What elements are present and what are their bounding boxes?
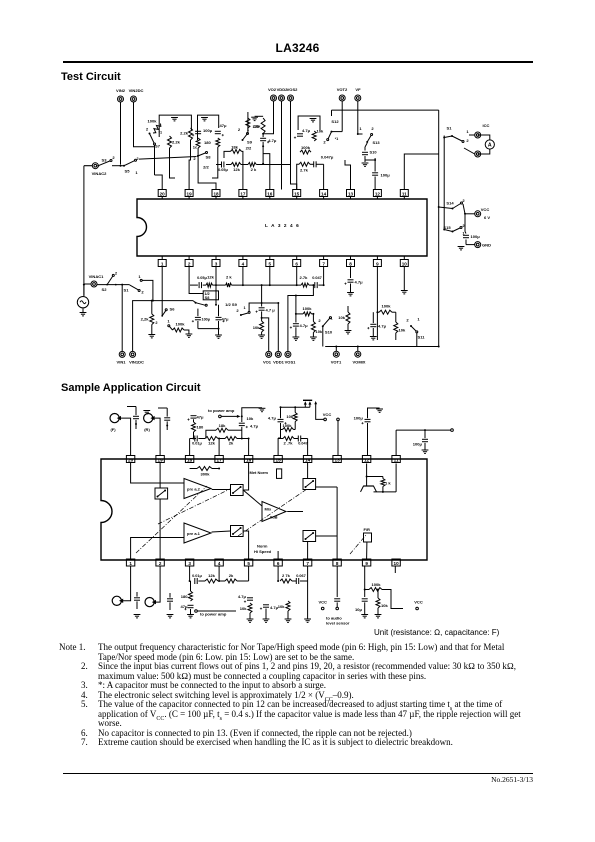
svg-text:pre a.2: pre a.2 bbox=[187, 487, 201, 492]
capacitor 47u bbox=[215, 123, 227, 136]
svg-text:1/2 S9: 1/2 S9 bbox=[225, 302, 237, 307]
resistor 180 bbox=[196, 138, 211, 148]
ground supply bbox=[458, 247, 465, 250]
wire pin13 up bbox=[345, 160, 351, 190]
wire pin16 up bbox=[248, 439, 250, 456]
terminal GND bbox=[466, 240, 491, 248]
capacitor 4.7u below junction bbox=[239, 416, 259, 438]
svg-text:A: A bbox=[488, 143, 492, 149]
pin 15 app (top) bbox=[274, 456, 282, 463]
capacitor 100u top bbox=[354, 408, 380, 456]
svg-text:4.7μ: 4.7μ bbox=[300, 323, 309, 328]
svg-text:S5: S5 bbox=[125, 169, 131, 174]
resistor 10k pin8b bbox=[338, 306, 351, 334]
internal wire pin19 to block A bbox=[159, 463, 161, 489]
switch block B bbox=[231, 485, 244, 496]
resistor 100k (input bias) bbox=[147, 119, 162, 135]
wire pin18 up bbox=[189, 439, 191, 456]
svg-text:5: 5 bbox=[269, 261, 272, 266]
svg-text:16: 16 bbox=[267, 191, 273, 196]
terminal VOS2 bbox=[287, 87, 299, 101]
switch S3 bbox=[97, 155, 115, 167]
svg-text:6 V: 6 V bbox=[484, 215, 490, 220]
svg-text:12k: 12k bbox=[207, 275, 215, 280]
internal wire pin5 to block C bbox=[243, 531, 249, 559]
svg-text:2: 2 bbox=[318, 318, 321, 323]
svg-text:2: 2 bbox=[141, 290, 144, 295]
svg-text:7: 7 bbox=[322, 261, 325, 266]
wire junction up to ground bbox=[242, 408, 266, 417]
svg-text:VOMIX: VOMIX bbox=[352, 360, 365, 365]
svg-text:3: 3 bbox=[215, 261, 218, 266]
pin 10 (bottom) bbox=[400, 256, 408, 267]
switch block C bbox=[231, 526, 244, 537]
capacitor 100u supply bbox=[463, 214, 480, 239]
wires mid cluster bbox=[297, 164, 299, 189]
svg-text:4.7μ: 4.7μ bbox=[378, 324, 387, 329]
wire cluster to pin 18 bbox=[198, 148, 216, 190]
svg-text:100μ: 100μ bbox=[413, 442, 423, 447]
svg-text:10k: 10k bbox=[399, 328, 407, 333]
switch S11 bbox=[406, 317, 425, 340]
svg-text:7: 7 bbox=[306, 561, 309, 566]
wire S7 down to pin 20 bbox=[154, 145, 156, 175]
svg-text:4.7μ: 4.7μ bbox=[250, 424, 259, 429]
svg-text:2: 2 bbox=[406, 318, 409, 323]
terminal VDD2 bbox=[277, 87, 289, 101]
switch S10 bbox=[318, 316, 333, 347]
svg-text:10k: 10k bbox=[254, 124, 262, 129]
wire 2.2k to pin 19 bbox=[189, 140, 190, 190]
output line with open end bbox=[396, 429, 453, 456]
switch S1 bbox=[443, 126, 469, 144]
ground pin7 app bbox=[304, 581, 311, 622]
svg-text:15: 15 bbox=[276, 457, 282, 462]
svg-text:18k: 18k bbox=[231, 145, 239, 150]
svg-text:100μ: 100μ bbox=[202, 318, 211, 322]
capacitor 4.7u VO1 node bbox=[256, 284, 276, 321]
wire select node bbox=[364, 147, 366, 151]
svg-text:3: 3 bbox=[188, 561, 191, 566]
capacitor 47u bottom app bbox=[181, 604, 194, 618]
wire pin7 down app bbox=[307, 566, 309, 581]
right rail 1 bbox=[438, 110, 440, 346]
svg-text:10k: 10k bbox=[240, 606, 248, 611]
pin 12 (top) bbox=[373, 190, 381, 200]
pin 6 app (bottom) bbox=[274, 559, 282, 566]
pin 1 app (bottom) bbox=[126, 559, 134, 566]
svg-text:100μ: 100μ bbox=[203, 128, 213, 133]
pin 1 (bottom) bbox=[158, 256, 166, 267]
pin 3 app (bottom) bbox=[185, 559, 193, 566]
terminal VF bbox=[355, 87, 361, 101]
supply up arrows bbox=[303, 400, 312, 407]
terminal VO2 bbox=[268, 87, 277, 101]
svg-text:2 k: 2 k bbox=[226, 275, 232, 280]
svg-text:13: 13 bbox=[348, 191, 354, 196]
capacitor 100u pin12 bbox=[372, 158, 390, 190]
current source symbol bbox=[361, 486, 377, 492]
terminal VINAC1 bbox=[84, 274, 104, 296]
row 0.01u 12k 2k top bbox=[192, 436, 249, 446]
svg-text:VCC: VCC bbox=[323, 412, 332, 417]
terminal VIN2 bbox=[116, 88, 126, 102]
pin 20 app (top) bbox=[126, 456, 134, 463]
wire pin1 down bbox=[161, 267, 163, 316]
svg-text:2 .7k: 2 .7k bbox=[283, 441, 293, 446]
wire second 2.2k down bbox=[170, 148, 176, 178]
svg-text:VIN1DC: VIN1DC bbox=[129, 360, 144, 365]
resistor 10k at VO2 bbox=[251, 116, 265, 134]
terminal VOS1 bbox=[285, 284, 315, 364]
svg-text:to power amp: to power amp bbox=[200, 612, 227, 617]
switch block E bbox=[303, 531, 316, 542]
svg-text:pre a.1: pre a.1 bbox=[187, 531, 201, 536]
wire select to pin12 node bbox=[365, 158, 375, 160]
resistor 100k bottom bbox=[167, 319, 192, 338]
svg-text:47μ: 47μ bbox=[222, 317, 230, 322]
switch block A bbox=[155, 488, 168, 499]
svg-text:S1: S1 bbox=[124, 288, 130, 293]
select dash line 3 bbox=[238, 489, 307, 536]
svg-text:VINAC1: VINAC1 bbox=[89, 274, 105, 279]
svg-text:18: 18 bbox=[213, 191, 219, 196]
pin 13 app (top) bbox=[333, 456, 341, 463]
svg-text:VCC: VCC bbox=[414, 600, 423, 605]
resistor 18k bbox=[231, 145, 242, 154]
svg-text:2 7k: 2 7k bbox=[282, 573, 291, 578]
wire pin9 down bbox=[376, 267, 378, 341]
svg-text:19: 19 bbox=[187, 191, 193, 196]
internal wire pin7 to block E bbox=[307, 542, 309, 560]
jack (R) bbox=[144, 414, 155, 433]
wire pin5 down app bbox=[248, 566, 250, 581]
internal wire preamp out bbox=[212, 489, 231, 491]
capacitor 4.7u pin9 bbox=[367, 312, 386, 340]
pin 14 (top) bbox=[320, 190, 328, 200]
svg-text:2k: 2k bbox=[229, 573, 234, 578]
VCC bottom 2 bbox=[391, 600, 423, 610]
pin 3 (bottom) bbox=[212, 256, 220, 267]
switch S1b bbox=[115, 274, 153, 301]
svg-text:6: 6 bbox=[277, 561, 280, 566]
svg-text:100k: 100k bbox=[301, 145, 311, 150]
svg-text:1: 1 bbox=[135, 170, 138, 175]
svg-text:1c: 1c bbox=[193, 145, 198, 150]
wire pin17 up bbox=[242, 151, 243, 189]
resistor 18k top bbox=[206, 423, 242, 439]
op-amp Mix 0dB bbox=[262, 502, 286, 522]
pin 19 app (top) bbox=[156, 456, 164, 463]
resistor 2.2k vertical second bbox=[168, 136, 181, 148]
pin 12 app (top) bbox=[362, 456, 370, 463]
svg-text:4.7μ: 4.7μ bbox=[355, 280, 364, 285]
svg-text:18k: 18k bbox=[219, 423, 227, 428]
wire current source to pin11 bbox=[374, 464, 397, 492]
svg-text:VO2: VO2 bbox=[268, 87, 277, 92]
svg-text:*1: *1 bbox=[159, 131, 163, 135]
svg-text:2: 2 bbox=[136, 156, 139, 161]
svg-text:1 k: 1 k bbox=[385, 481, 391, 486]
svg-text:VOS2: VOS2 bbox=[287, 87, 299, 92]
svg-text:2: 2 bbox=[112, 155, 115, 160]
svg-text:20: 20 bbox=[128, 457, 134, 462]
internal wire pin20 to pre a.2 bbox=[131, 463, 184, 484]
resistor 100k pin9 app bbox=[365, 582, 391, 601]
svg-text:12k: 12k bbox=[233, 167, 241, 172]
svg-text:S3: S3 bbox=[102, 158, 108, 163]
wire node to pin16 bbox=[263, 154, 270, 190]
svg-text:2.7k: 2.7k bbox=[300, 275, 309, 280]
svg-text:16: 16 bbox=[246, 457, 252, 462]
svg-text:180: 180 bbox=[197, 425, 205, 430]
svg-text:S7: S7 bbox=[155, 144, 161, 149]
svg-text:47μ: 47μ bbox=[197, 415, 205, 420]
wire pin10 down app bbox=[394, 566, 396, 573]
internal wire mix in bbox=[243, 490, 262, 506]
pin 20 (top) bbox=[158, 190, 166, 200]
svg-text:14: 14 bbox=[321, 191, 327, 196]
pin 7 app (bottom) bbox=[303, 559, 311, 566]
svg-text:100k: 100k bbox=[175, 322, 185, 327]
svg-text:(F): (F) bbox=[110, 427, 116, 432]
pin 16 app (top) bbox=[244, 456, 252, 463]
svg-text:S6: S6 bbox=[170, 307, 176, 312]
svg-text:10k: 10k bbox=[247, 416, 255, 421]
wire rail stub bbox=[331, 110, 333, 116]
svg-text:13: 13 bbox=[335, 457, 341, 462]
svg-text:2: 2 bbox=[371, 126, 374, 131]
svg-text:15: 15 bbox=[294, 191, 300, 196]
internal wire preamp1 out bbox=[212, 531, 231, 532]
row 2.7k 0.047 top bbox=[278, 436, 308, 446]
wire VF down bbox=[357, 101, 359, 134]
svg-text:ICC: ICC bbox=[483, 123, 490, 128]
svg-text:Norm: Norm bbox=[257, 544, 268, 549]
svg-text:VINAC2: VINAC2 bbox=[92, 171, 108, 176]
svg-text:0.047μ: 0.047μ bbox=[321, 155, 334, 160]
pin 16 (top) bbox=[266, 190, 274, 200]
svg-text:10μ: 10μ bbox=[355, 607, 363, 612]
svg-text:VCC: VCC bbox=[318, 600, 327, 605]
wire pin1 down app bbox=[130, 566, 132, 594]
wire S3 to S5 bbox=[112, 165, 124, 167]
capacitor at jack bottom R bbox=[167, 593, 174, 618]
svg-text:2: 2 bbox=[236, 308, 239, 313]
svg-text:2,2k: 2,2k bbox=[141, 317, 150, 322]
pin 9 (bottom) bbox=[373, 256, 381, 267]
terminal VINAC2 bbox=[92, 163, 108, 176]
svg-text:(R): (R) bbox=[144, 427, 150, 432]
capacitor S10 select bbox=[362, 150, 377, 155]
svg-text:VOS1: VOS1 bbox=[285, 360, 297, 365]
svg-text:100k: 100k bbox=[282, 423, 292, 428]
internal wire mix out bbox=[287, 511, 303, 513]
pin 4 app (bottom) bbox=[215, 559, 223, 566]
op-amp pre a.1 bbox=[184, 523, 211, 543]
svg-text:8: 8 bbox=[349, 261, 352, 266]
svg-text:VOT1: VOT1 bbox=[331, 360, 342, 365]
wire ICC lower left bbox=[464, 148, 475, 154]
wire pin13 up bbox=[337, 418, 340, 455]
resistor 100k mid bbox=[300, 145, 311, 154]
resistor 1k bbox=[367, 477, 392, 493]
wire node to VO1 bbox=[262, 318, 269, 352]
wire pin5 down bbox=[269, 267, 271, 286]
pin 13 (top) bbox=[347, 190, 355, 200]
svg-text:VCC: VCC bbox=[481, 207, 490, 212]
svg-text:S14: S14 bbox=[446, 201, 454, 206]
wire pin4 down bbox=[242, 267, 244, 286]
resistor 10k pin9 app bbox=[375, 589, 389, 618]
svg-text:100μ: 100μ bbox=[381, 173, 391, 178]
svg-text:6: 6 bbox=[295, 261, 298, 266]
wire pin12 into current source bbox=[366, 464, 368, 487]
internal wire pin6 to speed label bbox=[277, 551, 279, 559]
svg-text:0.047: 0.047 bbox=[298, 442, 308, 446]
wire VOS2 down bbox=[291, 101, 297, 190]
svg-text:VO1: VO1 bbox=[263, 360, 272, 365]
svg-text:100k: 100k bbox=[302, 306, 312, 311]
wire F to pin20 bbox=[119, 418, 131, 455]
resistor 180 bottom bbox=[181, 581, 193, 601]
svg-text:VIN2DC: VIN2DC bbox=[129, 88, 144, 93]
svg-text:S11: S11 bbox=[418, 335, 426, 340]
pin 17 (top) bbox=[239, 190, 247, 200]
wire S9 net bbox=[247, 112, 249, 134]
svg-text:2: 2 bbox=[146, 127, 149, 132]
svg-text:10k: 10k bbox=[338, 315, 346, 320]
select dash line 2 bbox=[158, 489, 230, 524]
svg-text:100μ: 100μ bbox=[354, 416, 364, 421]
switch S14 bbox=[438, 198, 466, 210]
svg-text:14: 14 bbox=[305, 457, 311, 462]
terminal VIN2DC bbox=[129, 88, 144, 102]
switch S9 bbox=[238, 127, 253, 151]
svg-text:100k: 100k bbox=[147, 119, 157, 124]
capacitor 47u bottom bbox=[216, 305, 230, 329]
right rail 2 bbox=[443, 136, 445, 230]
terminal VIN1 bbox=[117, 284, 127, 365]
svg-text:2: 2 bbox=[188, 261, 191, 266]
svg-text:8: 8 bbox=[336, 561, 339, 566]
svg-text:4.7μ: 4.7μ bbox=[268, 416, 277, 421]
svg-text:1: 1 bbox=[466, 129, 469, 134]
resistor 10k S11 bbox=[392, 312, 406, 340]
wire pin6 down app bbox=[277, 566, 279, 581]
F/R block bbox=[364, 527, 372, 542]
svg-text:17: 17 bbox=[217, 457, 223, 462]
switch S12 bbox=[323, 119, 342, 145]
svg-text:180: 180 bbox=[181, 594, 189, 599]
terminal VO1 bbox=[263, 351, 272, 364]
wire pin10 down bbox=[403, 267, 405, 291]
svg-text:S2: S2 bbox=[102, 287, 108, 292]
svg-text:2: 2 bbox=[115, 271, 118, 276]
svg-text:10k: 10k bbox=[278, 604, 286, 609]
pin 10 app (bottom) bbox=[392, 559, 400, 566]
switch block D bbox=[303, 479, 316, 490]
svg-text:VIN1: VIN1 bbox=[117, 360, 127, 365]
pin 18 app (top) bbox=[185, 456, 193, 463]
svg-text:L A 3 2 4 6: L A 3 2 4 6 bbox=[265, 223, 300, 228]
terminal ICC lower bbox=[475, 151, 481, 157]
svg-text:9: 9 bbox=[376, 261, 379, 266]
svg-text:0.01μ: 0.01μ bbox=[192, 442, 202, 446]
switch S2 bbox=[83, 271, 130, 293]
svg-text:100μ: 100μ bbox=[471, 234, 481, 239]
svg-text:12: 12 bbox=[364, 457, 370, 462]
resistor 10k bottom appB bbox=[278, 601, 292, 622]
VCC bottom 1 bbox=[318, 600, 327, 610]
resistor 100k pin9 bbox=[376, 304, 392, 315]
select dash line 1 bbox=[136, 486, 207, 553]
bottom right rail bbox=[325, 346, 439, 348]
svg-text:9: 9 bbox=[365, 561, 368, 566]
wire pin6 down bbox=[296, 267, 298, 286]
resistor 100k mid ac bbox=[278, 423, 295, 438]
switch S7 bbox=[146, 127, 161, 149]
svg-text:2.2k: 2.2k bbox=[180, 131, 189, 136]
wire VIN2 down bbox=[120, 102, 122, 165]
resistor 10k mid ac bbox=[286, 407, 297, 429]
svg-text:1: 1 bbox=[417, 317, 420, 322]
switch half 1/2 S9 bbox=[225, 302, 250, 316]
svg-text:GND: GND bbox=[482, 243, 491, 248]
resistor 10k out node bbox=[310, 314, 323, 341]
pin 11 (top) bbox=[400, 190, 408, 200]
svg-text:S12: S12 bbox=[331, 119, 339, 124]
svg-text:4: 4 bbox=[218, 561, 221, 566]
top rail right long bbox=[332, 109, 439, 111]
switch S6 bbox=[161, 307, 175, 317]
capacitor at jack bottom F bbox=[134, 592, 141, 618]
svg-text:*1: *1 bbox=[335, 137, 339, 141]
capacitor 10u app bbox=[355, 599, 368, 618]
svg-text:10k: 10k bbox=[253, 325, 261, 330]
mid box top rail bbox=[298, 116, 320, 130]
svg-text:S8: S8 bbox=[206, 155, 212, 160]
mid supply elbow wire bbox=[280, 406, 310, 408]
svg-text:F/R: F/R bbox=[364, 527, 371, 532]
op-amp pre a.2 bbox=[184, 479, 211, 499]
wire pin2 down app bbox=[159, 566, 161, 596]
svg-text:1: 1 bbox=[243, 306, 245, 310]
resistor 300k feedback bbox=[190, 467, 221, 477]
svg-text:2: 2 bbox=[155, 321, 157, 325]
svg-text:17: 17 bbox=[240, 191, 246, 196]
resistor 180 top bbox=[192, 419, 205, 438]
svg-text:0.047: 0.047 bbox=[312, 276, 322, 280]
capacitor 4.7u bottom appB bbox=[260, 605, 279, 623]
svg-text:11: 11 bbox=[394, 457, 399, 462]
svg-text:2.7k: 2.7k bbox=[300, 168, 309, 173]
terminal VOT1 bbox=[331, 346, 342, 365]
svg-text:10k: 10k bbox=[316, 329, 323, 334]
box around input network bbox=[159, 115, 191, 137]
to audio level sensor bbox=[326, 607, 350, 625]
svg-text:20: 20 bbox=[160, 191, 166, 196]
wire 47u branch down bbox=[212, 147, 218, 178]
terminal VCC 6V bbox=[463, 204, 490, 220]
svg-text:18: 18 bbox=[187, 457, 193, 462]
switch S8 first half bbox=[193, 145, 211, 170]
terminal VIN1DC bbox=[129, 300, 196, 365]
switch S15 bbox=[443, 223, 465, 236]
wire VINAC2 to left rail bbox=[84, 165, 92, 167]
resistor 2.2k bottom bbox=[141, 300, 158, 338]
svg-text:300k: 300k bbox=[201, 472, 211, 477]
